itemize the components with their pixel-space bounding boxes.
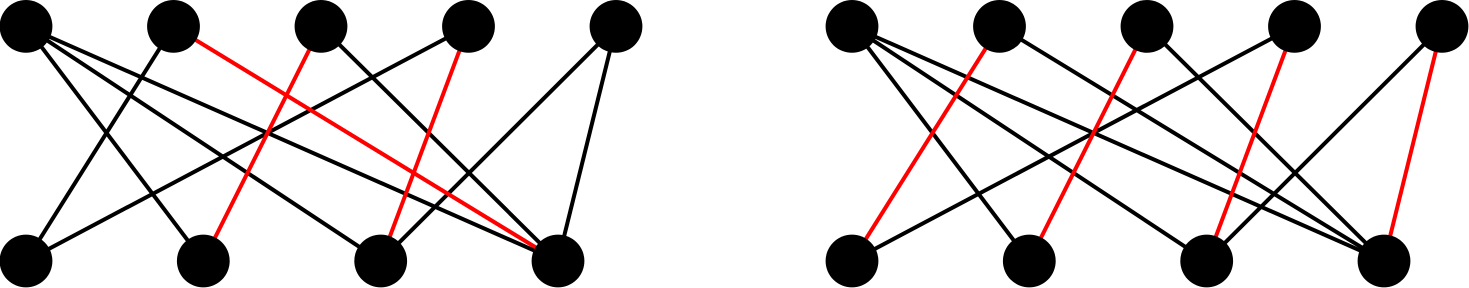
wire right matched T3-B2 [1029,26,1147,261]
wire right matched T2-B1 [852,26,1000,261]
wire left T4-B1 [26,26,469,261]
node left B3 [354,235,407,288]
wire right T5-B3 [1207,26,1442,261]
node right B4 [1358,235,1411,288]
wire left T1-B4 [26,26,558,261]
wire right T2-B4 [1000,26,1385,261]
wire right T1-B2 [852,26,1029,261]
wire left matched T2-B4 [174,26,559,261]
node right B2 [1003,235,1056,288]
node right T3 [1121,0,1174,53]
node right T2 [973,0,1026,53]
wire left matched T4-B3 [381,26,469,261]
wire right T3-B4 [1147,26,1384,261]
node left B2 [177,235,230,288]
node left T3 [295,0,348,53]
wire right T4-B1 [852,26,1295,261]
wire left T5-B4 [558,26,616,261]
node right T1 [826,0,879,53]
wire right matched T4-B3 [1207,26,1295,261]
wire right T1-B4 [852,26,1384,261]
wire left matched T3-B2 [203,26,321,261]
wire left T5-B3 [381,26,616,261]
node right T4 [1268,0,1321,53]
node left T4 [442,0,495,53]
node left T2 [147,0,200,53]
node left T1 [0,0,52,53]
node right B3 [1180,235,1233,288]
wire left T1-B3 [26,26,381,261]
node left T5 [590,0,643,53]
node right T5 [1416,0,1469,53]
wire left T3-B4 [321,26,558,261]
node left B4 [532,235,585,288]
node left B1 [0,235,52,288]
wire right matched T5-B4 [1384,26,1442,261]
wire right T1-B3 [852,26,1207,261]
node right B1 [826,235,879,288]
wire left T2-B1 [26,26,174,261]
wire left T1-B2 [26,26,203,261]
